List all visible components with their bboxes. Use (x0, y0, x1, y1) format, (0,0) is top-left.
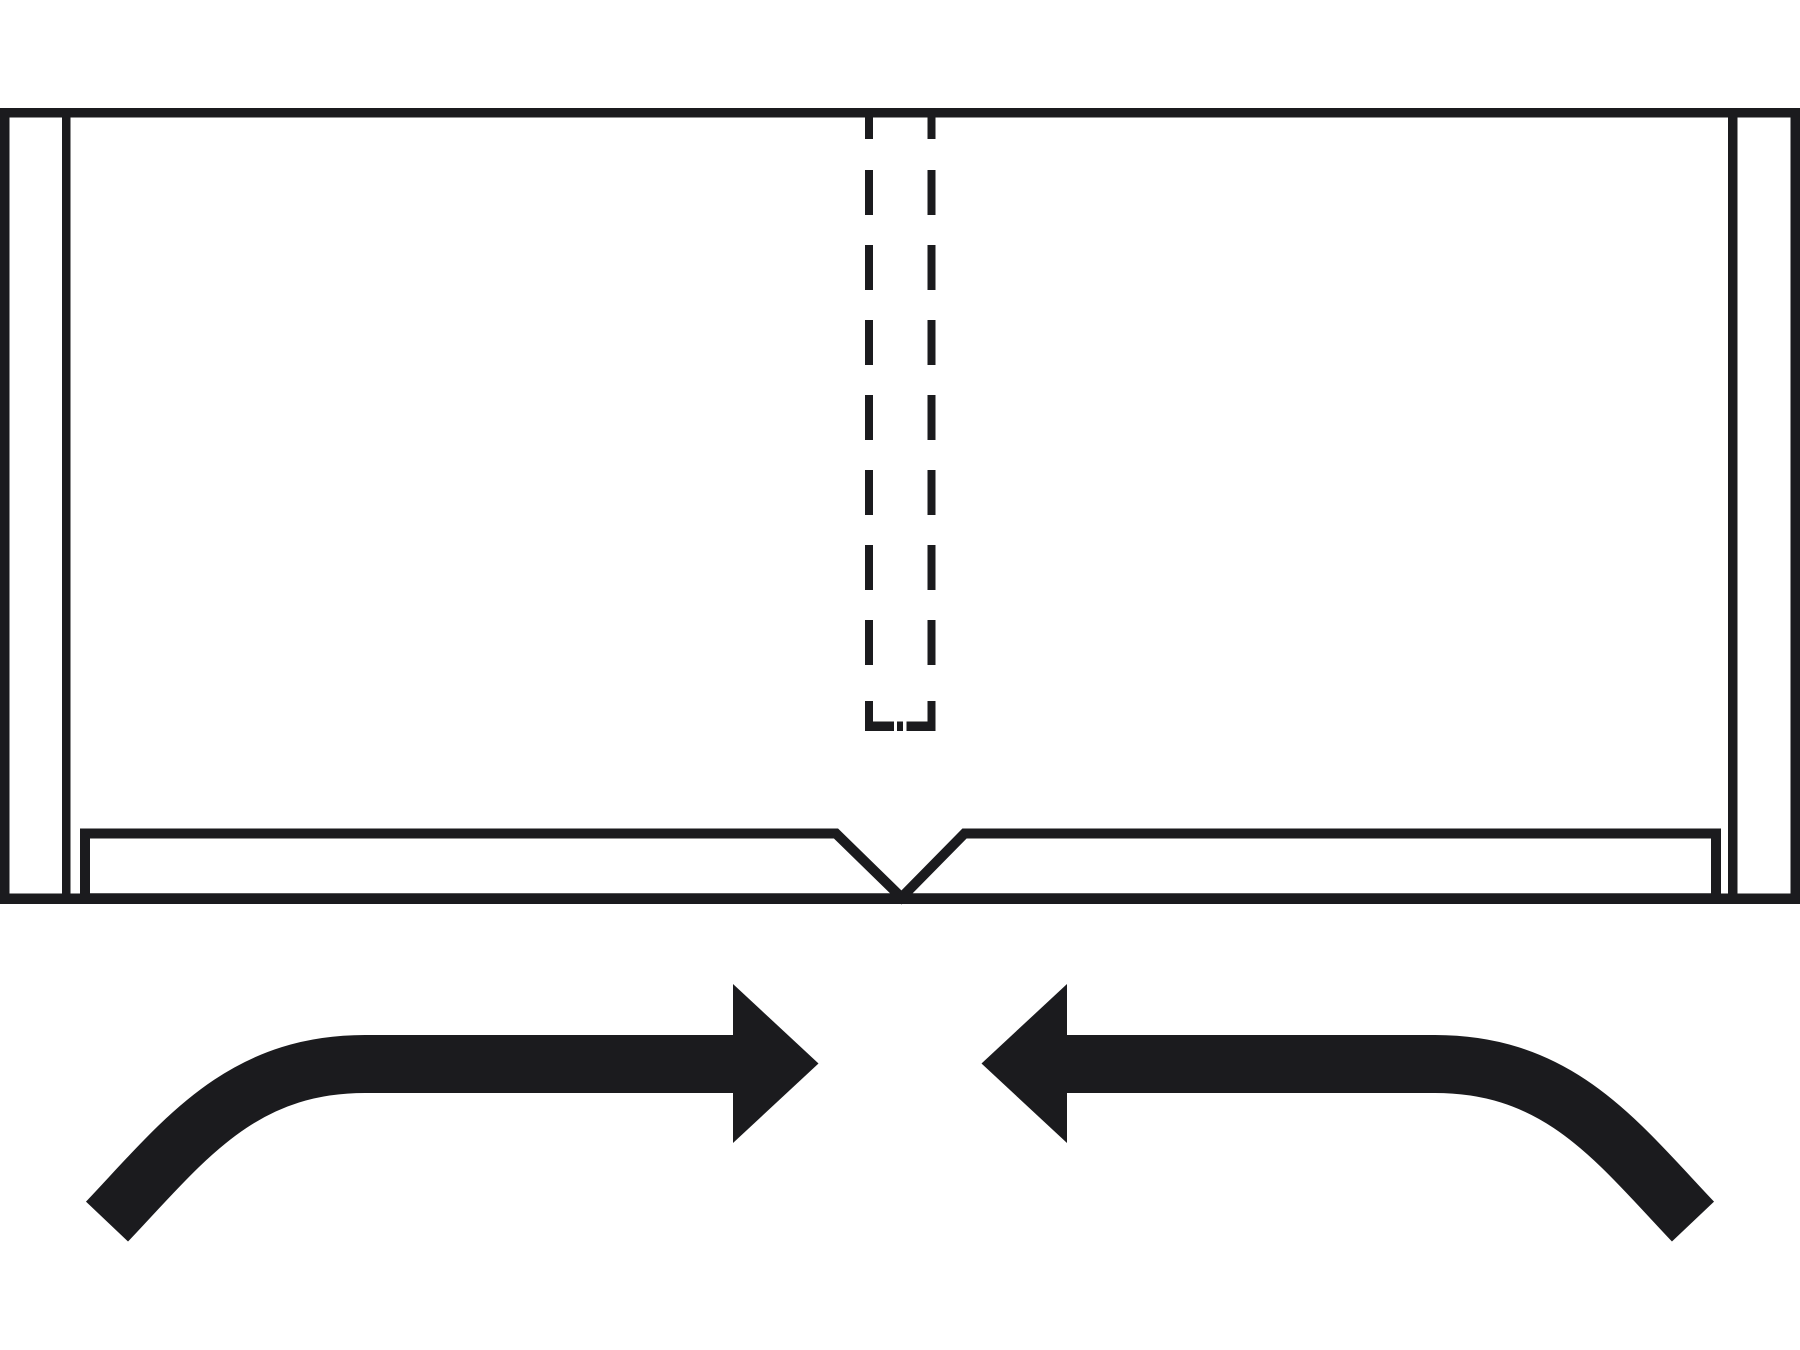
left spine crease line (62, 112, 71, 898)
left arrow shaft (107, 1064, 740, 1222)
left arrow head (733, 984, 819, 1143)
bottom edge band (0, 894, 1800, 905)
dashed slot bottom centre dash (897, 722, 903, 732)
right arrow head (982, 984, 1068, 1143)
dashed fold slot, left line (865, 113, 873, 665)
dashed fold slot, right line (928, 113, 936, 665)
dashed slot bottom-left corner (865, 701, 894, 731)
dashed slot bottom-right corner (907, 701, 936, 731)
right spine crease line (1728, 112, 1738, 898)
folder cover outline (5, 113, 1796, 899)
right arrow shaft (1060, 1064, 1693, 1222)
pocket strip with thumb notch (85, 834, 1716, 899)
